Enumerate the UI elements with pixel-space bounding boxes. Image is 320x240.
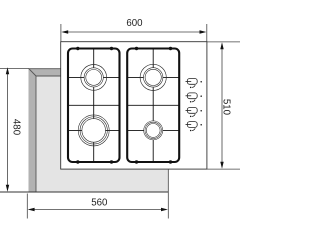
worktop band top line [29,68,61,70]
knob 3 [186,108,202,118]
arrow 600 right [200,30,207,33]
grid lines left [93,49,95,163]
arrow 480 top [6,67,9,74]
pan support right frame [127,49,179,163]
pan support left frame [68,49,120,163]
arrow 600 left [61,30,68,33]
hob body [61,42,207,169]
pan support feet dots [76,47,172,164]
svg-text:600: 600 [126,18,143,29]
dimension line 480 [7,71,9,188]
worktop corner mitre line [29,69,36,76]
arrow 560 left [28,208,35,211]
knob 2 [186,93,202,103]
knob 4 [186,122,202,132]
dimension line 600 [66,31,202,33]
worktop surface (light grey L-shape) [29,69,169,193]
extension line right of 600 [206,24,208,42]
worktop band inner horizontal line [36,75,61,77]
knob 1 [186,79,202,89]
worktop front edge line [0,191,168,193]
svg-text:510: 510 [221,99,232,116]
extension line top of 480 [0,68,29,70]
dimension line 510 [221,46,223,165]
arrow 510 top [220,42,223,49]
burner top-left [81,65,107,91]
dimension line 560 [31,209,164,211]
burner bottom-right (small) [144,121,163,140]
extension line left of 600 [60,24,62,42]
extension line right of 560 [167,169,169,218]
svg-text:560: 560 [91,197,108,208]
svg-text:480: 480 [10,119,21,136]
extension line left of 560 [26,194,28,219]
burner bottom-left (wok) [78,115,109,146]
worktop edge band (mid grey) [29,69,61,193]
arrow 480 bottom [6,185,9,192]
burner top-right [140,64,166,90]
arrow 560 right [161,208,168,211]
arrow 510 bottom [220,162,223,169]
worktop band inner vertical line [35,76,37,192]
grid lines right [152,49,154,163]
extension line bottom of 510 [207,168,240,170]
extension line top of 510 [207,41,240,43]
